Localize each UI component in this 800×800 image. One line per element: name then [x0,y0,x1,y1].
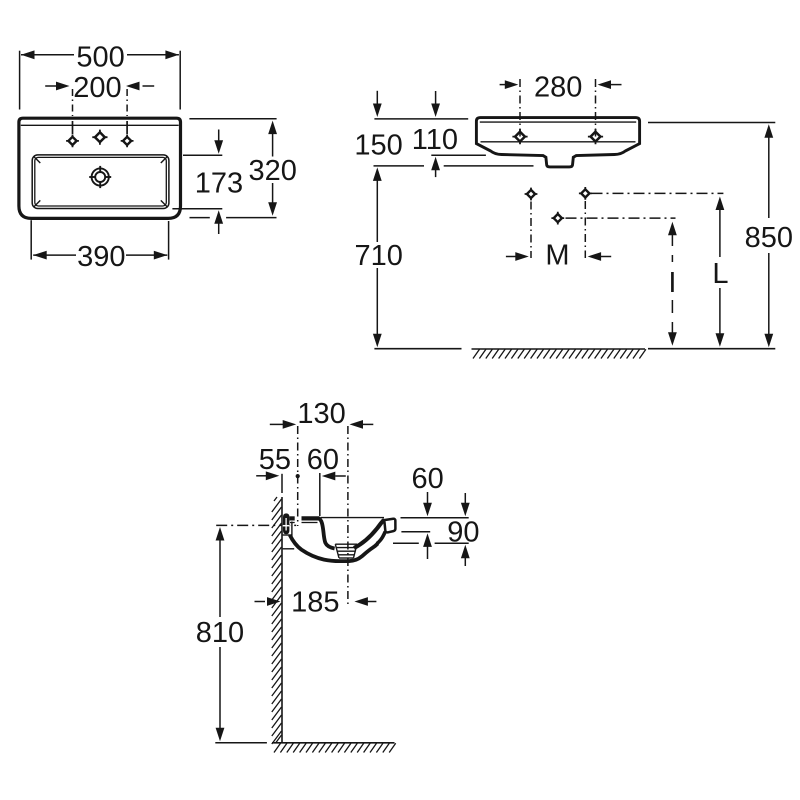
svg-text:810: 810 [196,617,244,649]
dimension 55 [256,444,291,493]
svg-text:55: 55 [259,444,291,476]
centreline above right faucet hole [126,89,128,116]
faucet hole middle [92,130,107,145]
floor hatch elevation [472,349,646,359]
underside shell [290,535,378,561]
dimension 390 [31,220,168,273]
inner basin inner rect [35,157,167,206]
drain symbol [89,166,111,188]
fixing hole C [551,212,564,225]
floor line elevation [374,348,461,350]
centreline mounting hole left [519,79,521,143]
under-rim thin line [290,522,295,524]
svg-text:200: 200 [73,72,121,104]
svg-text:320: 320 [249,155,297,187]
dimension L [712,197,728,347]
svg-text:850: 850 [745,222,793,254]
svg-text:390: 390 [77,241,125,273]
washbasin elevation outline [476,118,639,167]
svg-text:90: 90 [447,516,479,548]
floor hatch side view [274,743,396,752]
dimension 173 [172,130,243,235]
svg-text:710: 710 [355,240,403,272]
bowl back wall [319,519,335,549]
fixing hole A [525,188,538,201]
faucet hole right [121,135,134,148]
dimension 90 [393,493,480,566]
faucet axis centreline side [297,426,299,526]
dimension 150 [354,91,468,162]
far rim edge across bowl [321,517,385,519]
dimension 185 [255,587,377,619]
svg-text:280: 280 [534,72,582,104]
elevation shoulder line [481,141,636,143]
centreline below hole B [584,201,586,258]
svg-text:500: 500 [76,41,124,73]
dimension 320 [189,119,296,218]
dimension 110 [412,91,486,177]
centreline right of hole B [592,192,724,194]
dimension 280 [500,72,622,104]
basin profile rim [289,518,395,562]
mounting axis centreline [216,524,297,526]
front hook [384,519,395,533]
wall bolt [283,513,290,534]
wall hatch [272,497,282,744]
faucet hole left [66,135,79,148]
wall face line [281,497,283,743]
centreline mounting hole right [595,79,597,143]
drain trap stack [335,544,357,558]
svg-text:150: 150 [354,129,402,161]
dimension 850 [648,123,793,348]
svg-text:L: L [712,258,728,290]
svg-text:M: M [545,240,569,272]
svg-text:130: 130 [297,398,345,430]
svg-text:185: 185 [291,587,339,619]
dimension I (dashed) [668,222,677,346]
front rim inner line [21,124,179,126]
svg-text:60: 60 [411,463,443,495]
dimension 810 [196,527,267,743]
centreline below hole A [530,202,532,259]
front apron edge [377,532,386,544]
bowl right diagonal wall [354,520,384,548]
elevation rim inner line [480,121,636,123]
svg-text:173: 173 [195,168,243,200]
dimension 60 right [401,463,469,559]
junction dot [296,474,300,478]
inner basin corner chamfers [34,156,168,207]
dimension M [506,240,611,272]
centreline right of hole C [566,217,676,219]
dimension 710 with lower 150 line [355,166,534,347]
fixing hole B [579,187,592,200]
centreline above left faucet hole [72,89,74,116]
basin back detail lines [283,522,295,549]
svg-text:I: I [668,267,676,299]
washbasin front outline [19,118,181,218]
drain axis centreline side [347,426,349,607]
dimension 500 [20,41,181,109]
floor line side view [272,742,395,744]
dimension 130 [270,398,374,430]
inner basin outer rect [32,155,169,209]
mounting hole left [512,129,527,144]
svg-text:60: 60 [307,444,339,476]
dimension 200 [45,72,154,104]
dimension 60 left [307,444,346,516]
svg-text:110: 110 [412,124,458,156]
mounting hole right [588,129,603,144]
